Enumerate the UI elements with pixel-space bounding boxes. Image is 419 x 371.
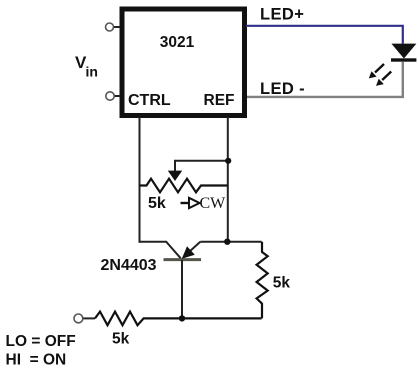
svg-text:CW: CW bbox=[200, 195, 227, 212]
svg-text:2N4403: 2N4403 bbox=[101, 257, 157, 274]
wire emitter node horizontal bbox=[200, 241, 261, 243]
potentiometer R1 wiper wire bbox=[175, 161, 228, 172]
LED D1 emission arrow 2 bbox=[376, 72, 391, 86]
LED D1 bbox=[391, 44, 416, 62]
IC U1 3021 body bbox=[122, 9, 245, 116]
terminal T1 (Vin top) bbox=[106, 23, 121, 31]
terminal T2 (Vin bottom / CTRL input) bbox=[106, 92, 120, 100]
wire REF vertical bbox=[227, 117, 229, 243]
svg-text:in: in bbox=[86, 64, 98, 80]
svg-text:LO = OFF: LO = OFF bbox=[6, 333, 76, 350]
junction J2 (emitter / REF / R2) bbox=[224, 239, 230, 245]
potentiometer R1 wiper arrow bbox=[168, 171, 182, 181]
resistor R2 5k (vertical) bbox=[257, 242, 268, 319]
junction J1 (wiper to REF) bbox=[225, 158, 231, 164]
wire Q1 base vertical bbox=[181, 260, 183, 318]
label Vin bbox=[75, 53, 98, 80]
svg-text:LED -: LED - bbox=[260, 80, 305, 98]
wire CTRL vertical bbox=[139, 117, 141, 243]
svg-text:REF: REF bbox=[204, 92, 235, 109]
svg-text:CTRL: CTRL bbox=[128, 92, 171, 109]
svg-text:HI = ON: HI = ON bbox=[6, 351, 67, 368]
resistor R3 5k (horizontal) and bottom wire bbox=[95, 312, 262, 326]
svg-text:5k: 5k bbox=[273, 275, 291, 292]
transistor Q1 emitter lead with arrow bbox=[182, 242, 201, 259]
svg-text:5k: 5k bbox=[112, 331, 130, 348]
svg-text:3021: 3021 bbox=[160, 34, 195, 51]
potentiometer R1 body (zigzag) bbox=[140, 179, 228, 193]
CW arrow symbol bbox=[181, 198, 200, 208]
wire LED+ (navy) from U1 to LED anode bbox=[246, 26, 403, 44]
svg-text:5k: 5k bbox=[148, 195, 166, 212]
junction J3 (base / R3 node) bbox=[179, 315, 185, 321]
wire LED- (gray) from U1 to LED cathode bbox=[247, 62, 403, 97]
terminal T3 (logic input) bbox=[74, 314, 95, 323]
LED D1 emission arrow 1 bbox=[369, 64, 384, 78]
svg-text:LED+: LED+ bbox=[260, 6, 304, 24]
transistor Q1 collector lead bbox=[140, 242, 181, 259]
transistor Q1 base bar bbox=[164, 258, 202, 261]
